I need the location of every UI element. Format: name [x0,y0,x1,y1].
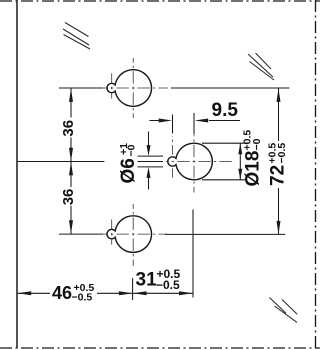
dim 36 line [70,88,72,234]
dim Ø18 label [242,130,264,187]
right edge break line [315,0,317,350]
svg-text:72: 72 [268,165,289,186]
dim 46 line [18,292,133,294]
ext line top-left (36) [59,87,103,89]
dim 72 line [278,88,280,234]
svg-text:Ø18: Ø18 [243,151,264,187]
dim 9.5 tails [150,120,241,122]
hole bottom: Ø18 outline with Ø6 notch [107,216,152,253]
ext line bottom-right (72) [165,233,285,235]
svg-text:31: 31 [136,270,158,291]
svg-text:36: 36 [60,189,77,206]
glass hatch bottom-right [270,298,298,323]
dim 36 arrows [69,88,73,233]
ext lines Ø18 [202,143,247,180]
ext line top-right (72) [171,87,289,89]
dim Ø6 arrow stems [148,132,150,190]
dim Ø18 line [239,143,241,179]
ext line 31 right [192,209,194,297]
dim 72 arrows [277,88,281,234]
hole top: Ø18 outline with Ø6 notch [107,70,152,107]
hole middle: Ø18 outline with Ø6 notch [168,143,213,180]
svg-text:Ø6: Ø6 [118,158,139,183]
ext line 46/31 left [132,278,134,300]
top edge break line [0,0,320,2]
ext line middle-left [18,161,105,163]
glass hatch top-left [63,23,90,50]
glass hatch top-right [248,53,274,80]
svg-text:46: 46 [52,283,72,303]
svg-text:−0: −0 [251,138,263,150]
left panel edge [16,0,18,348]
svg-text:9.5: 9.5 [212,100,239,121]
svg-text:−0.5: −0.5 [72,292,93,304]
svg-text:36: 36 [60,120,77,137]
ext lines O6 [138,156,164,167]
ext lines 9.5 [173,113,195,135]
svg-text:−0: −0 [126,144,138,156]
dim Ø6 arrows [147,145,151,178]
hole middle centerlines [166,135,233,193]
dim Ø6 label [118,143,139,184]
svg-text:−0.5: −0.5 [276,143,288,164]
dim 46 arrows [18,291,133,295]
dim 9.5 arrows [159,119,209,123]
hole top centerlines [102,58,168,118]
dim 72 label [267,143,289,186]
svg-text:−0.5: −0.5 [156,278,180,292]
ext line bottom-left (36) [59,233,103,235]
dim Ø18 arrows [238,143,242,179]
hole bottom centerlines [102,204,167,266]
dim 31 arrows [133,291,193,295]
dim 46 text mask [50,283,97,302]
dim 31 line [133,292,193,294]
bottom edge break line [0,347,320,349]
